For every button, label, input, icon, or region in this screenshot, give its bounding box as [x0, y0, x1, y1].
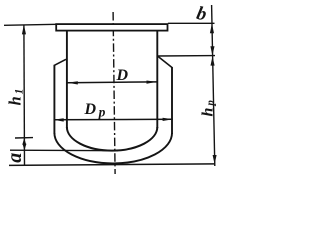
arrow hp top (up)	[211, 56, 215, 66]
extension line: a top short line	[15, 137, 33, 139]
jacket left slant (top closure)	[54, 59, 66, 65]
arrow h1 top (up)	[22, 25, 26, 35]
extension line: vessel bottom tangent (a bottom)	[10, 149, 118, 152]
baseline: jacket bottom tangent	[9, 164, 215, 166]
vessel left wall	[66, 31, 68, 128]
vessel dished bottom	[67, 127, 157, 151]
arrow Dp left	[54, 118, 64, 121]
arrow Dp right	[163, 118, 173, 121]
svg-text:D: D	[116, 67, 129, 84]
extension line: flange top, right side	[168, 22, 215, 24]
dimension line D	[68, 81, 157, 84]
arrow a/h1 bottom (down at y150)	[23, 144, 27, 151]
svg-text:h1: h1	[5, 87, 25, 106]
arrow D right	[147, 81, 157, 84]
dimension line b/hp (right vertical)	[212, 5, 215, 166]
jacket dished bottom	[54, 133, 172, 163]
svg-text:Dp: Dp	[84, 101, 106, 119]
extension line: flange top, left side	[4, 24, 56, 25]
jacket right slant (top closure)	[158, 56, 172, 67]
vessel right wall	[156, 31, 158, 128]
arrow D left	[68, 81, 78, 84]
flange (top bar of vessel)	[56, 24, 167, 31]
dimension line Dp	[54, 118, 173, 121]
centerline (vertical dash-dot axis)	[113, 12, 115, 174]
svg-text:a: a	[4, 153, 26, 163]
arrow b bottom (down)	[210, 46, 214, 56]
jacket left wall	[53, 65, 55, 134]
jacket right wall	[171, 67, 173, 134]
arrow a top (up at y138)	[22, 138, 26, 145]
svg-text:hp: hp	[200, 98, 217, 116]
arrow hp bottom (down)	[213, 155, 217, 164]
extension line: jacket top level, right side	[158, 55, 215, 57]
svg-text:b: b	[195, 3, 209, 26]
dimension line h1/a (left vertical)	[23, 25, 26, 166]
arrow b top (up)	[210, 23, 214, 33]
